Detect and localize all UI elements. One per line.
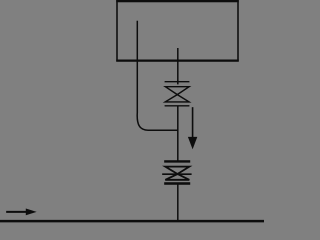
wire: pipe from tank to valve V1: [177, 48, 179, 84]
arrow: flow direction arrow at drain: [6, 209, 36, 216]
arrow: downward flow arrow: [188, 107, 197, 149]
wire: dip tube line with elbow to pipe: [137, 21, 178, 130]
wire: pipe from valve V2 to drain line: [177, 184, 179, 222]
wire: pipe from valve V1 to valve V2: [177, 106, 179, 162]
ground/drain line: [0, 220, 264, 223]
vessel/tank T1: [116, 0, 239, 61]
valve V1: [165, 82, 190, 106]
valve V2: [162, 161, 191, 183]
